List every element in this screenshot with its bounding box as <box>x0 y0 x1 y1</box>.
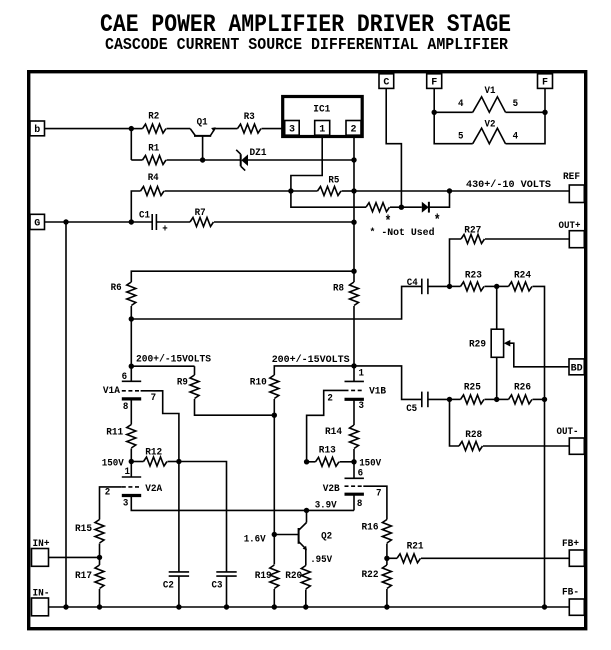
transistor Q1 <box>190 118 216 161</box>
zener diode DZ1 <box>203 148 354 171</box>
svg-text:R29: R29 <box>469 339 486 350</box>
svg-text:REF: REF <box>563 172 580 183</box>
terminal IN+ <box>32 539 50 566</box>
svg-text:IC1: IC1 <box>313 104 330 115</box>
svg-text:C3: C3 <box>212 580 223 591</box>
terminal F (right) <box>538 74 553 89</box>
svg-text:R2: R2 <box>148 112 159 123</box>
svg-text:R15: R15 <box>75 524 92 535</box>
node rail/R17 <box>97 604 102 609</box>
svg-text:Q2: Q2 <box>321 531 332 542</box>
svg-text:C2: C2 <box>163 580 174 591</box>
node rail/C2 <box>176 604 181 609</box>
wire left rail G to bottom <box>65 222 67 607</box>
resistor R25 <box>450 382 497 404</box>
svg-text:3: 3 <box>123 498 128 509</box>
label 200 volts right <box>272 354 350 366</box>
node heater left junction <box>432 110 437 115</box>
resistor R7 <box>156 208 354 227</box>
svg-text:V1: V1 <box>485 86 496 97</box>
capacitor C1 <box>139 211 168 236</box>
svg-text:430+/-10 VOLTS: 430+/-10 VOLTS <box>466 179 551 191</box>
resistor R22 <box>362 558 392 607</box>
svg-text:FB+: FB+ <box>562 539 579 550</box>
wire G to C1 <box>45 221 153 223</box>
node R10 bottom junction <box>272 413 277 418</box>
svg-text:V2: V2 <box>485 120 496 131</box>
heater V1 <box>434 86 545 112</box>
node R4/R5/pin1 junction <box>288 188 293 193</box>
transistor Q2 <box>274 510 332 565</box>
svg-text:V2B: V2B <box>323 484 340 495</box>
svg-text:R1: R1 <box>148 144 159 155</box>
svg-text:2: 2 <box>350 124 356 135</box>
resistor R23 <box>450 270 497 291</box>
resistor not used <box>366 203 401 212</box>
resistor R8 <box>333 282 359 366</box>
svg-text:5: 5 <box>458 132 464 143</box>
svg-text:R23: R23 <box>465 270 482 281</box>
node R6 bottom junction <box>129 316 134 321</box>
wire F left down <box>433 88 435 112</box>
svg-text:8: 8 <box>357 499 363 510</box>
wire 200V right to C5 <box>354 366 422 400</box>
node C5/R25/R28 junction <box>447 397 452 402</box>
label -Not Used <box>370 227 435 239</box>
resistor R21 <box>387 542 569 563</box>
svg-text:IN+: IN+ <box>33 539 50 550</box>
terminal IN- <box>32 589 50 616</box>
svg-text:R17: R17 <box>75 571 92 582</box>
node 150V left junction <box>129 459 134 464</box>
node rail/R22 <box>384 604 389 609</box>
resistor R27 <box>450 225 570 286</box>
svg-text:1: 1 <box>359 368 365 379</box>
node R16/R21/R22 junction <box>384 556 389 561</box>
wire R12 node to C3 column <box>179 462 227 572</box>
capacitor C4 <box>407 278 450 294</box>
svg-text:3: 3 <box>359 401 365 412</box>
wire V1A grid pin7 to C2 column <box>141 391 179 462</box>
svg-text:G: G <box>34 219 40 230</box>
wire V1B grid pin2 to R13 node <box>307 390 345 461</box>
svg-text:V2A: V2A <box>145 484 162 495</box>
label asterisk diode <box>434 213 441 230</box>
svg-text:R21: R21 <box>407 542 424 553</box>
resistor R24 <box>497 270 545 399</box>
label 3.9V <box>315 501 337 512</box>
node b/R1/R2 junction <box>129 126 134 131</box>
svg-text:R25: R25 <box>464 382 481 393</box>
resistor R26 <box>497 382 545 404</box>
node G/R4 junction <box>129 219 134 224</box>
svg-text:R14: R14 <box>325 427 342 438</box>
svg-text:OUT-: OUT- <box>557 427 579 438</box>
node rail/C3 <box>224 604 229 609</box>
svg-text:R27: R27 <box>464 225 481 236</box>
node R25/R26/R29 junction <box>494 397 499 402</box>
svg-text:7: 7 <box>151 393 157 404</box>
resistor R5 <box>291 176 354 196</box>
wire IN+ to R15/R17 <box>49 556 100 558</box>
node R7/pin2 column junction <box>351 220 356 225</box>
resistor R11 <box>106 399 136 462</box>
svg-text:*: * <box>434 213 441 230</box>
svg-text:R9: R9 <box>177 378 188 389</box>
svg-text:* -Not Used: * -Not Used <box>370 227 435 239</box>
op-amp IC1 <box>283 97 363 137</box>
capacitor C5 <box>406 392 449 415</box>
node R23/R24/R29 junction <box>494 284 499 289</box>
label 150V left <box>102 458 124 469</box>
triode V2B <box>323 462 382 510</box>
svg-text:C5: C5 <box>406 404 417 415</box>
resistor R2 <box>131 112 190 134</box>
node rail/R20 <box>303 604 308 609</box>
node 150V right junction <box>351 459 356 464</box>
svg-text:FB-: FB- <box>562 588 579 599</box>
resistor R13 <box>307 446 354 467</box>
svg-text:1.6V: 1.6V <box>244 534 266 545</box>
wire R6 bottom to C4 <box>131 286 421 319</box>
wire riser to FB- rail <box>544 399 546 607</box>
triode V1B <box>327 366 386 412</box>
svg-text:5: 5 <box>513 99 519 110</box>
svg-text:R7: R7 <box>195 208 206 219</box>
svg-text:8: 8 <box>123 402 128 413</box>
svg-text:.95V: .95V <box>310 555 332 566</box>
node rail/FB- riser <box>542 604 547 609</box>
svg-text:R16: R16 <box>362 522 379 533</box>
terminal G <box>30 214 45 229</box>
svg-text:C1: C1 <box>139 211 150 222</box>
svg-text:C4: C4 <box>407 278 418 289</box>
svg-text:R13: R13 <box>319 446 336 457</box>
terminal F (left) <box>427 74 442 89</box>
wire F right down <box>544 88 546 112</box>
node C4/R23/R27 junction <box>447 284 452 289</box>
label 1.6V <box>244 534 266 545</box>
triode V2A <box>105 462 162 510</box>
wire R10 node down to 1.6V node <box>273 415 275 564</box>
capacitor C3 <box>212 572 237 607</box>
svg-text:R24: R24 <box>514 270 531 281</box>
wire b to node <box>45 128 132 130</box>
svg-text:OUT+: OUT+ <box>559 221 581 232</box>
terminal REF <box>563 172 584 203</box>
label .95V <box>310 555 332 566</box>
node R6 top/pin2 column junction <box>351 269 356 274</box>
svg-text:200+/-15VOLTS: 200+/-15VOLTS <box>272 354 350 366</box>
node Q2 collector junction <box>304 508 309 513</box>
node R12/C2/C3 junction <box>176 459 181 464</box>
capacitor C2 <box>163 462 189 608</box>
resistor R16 <box>362 520 392 559</box>
resistor R14 <box>325 399 359 462</box>
node 1.6V junction <box>272 532 277 537</box>
label 150V right <box>359 458 381 469</box>
wire bottom rail IN- <box>49 606 570 608</box>
svg-text:IN-: IN- <box>33 589 50 600</box>
label 430+/-10 VOLTS <box>466 179 551 191</box>
svg-text:F: F <box>542 78 548 89</box>
svg-text:R26: R26 <box>514 382 531 393</box>
svg-text:+: + <box>162 225 168 236</box>
diode not used <box>401 191 449 213</box>
svg-text:R4: R4 <box>148 173 159 184</box>
svg-text:Q1: Q1 <box>197 118 208 129</box>
wire REF line 430 volts <box>354 190 569 192</box>
terminal OUT- <box>557 427 585 454</box>
node rail/R19 <box>272 604 277 609</box>
resistor R9 <box>177 366 274 415</box>
terminal FB+ <box>562 539 584 566</box>
svg-text:6: 6 <box>358 468 364 479</box>
terminal OUT+ <box>559 221 585 248</box>
potentiometer R29 <box>469 286 569 399</box>
svg-text:V1A: V1A <box>103 386 120 397</box>
svg-text:R5: R5 <box>328 176 339 187</box>
triode V1A <box>103 366 156 413</box>
svg-text:R28: R28 <box>465 430 482 441</box>
wire V2A cathode pin3 to V2B cathode (3.9V line) <box>131 496 354 511</box>
resistor R1 <box>131 144 203 165</box>
svg-text:F: F <box>431 78 437 89</box>
node right 200V junction <box>351 363 356 368</box>
svg-text:R20: R20 <box>285 571 302 582</box>
svg-text:3.9V: 3.9V <box>315 501 337 512</box>
wire V2A grid pin2 to R15 <box>100 487 122 520</box>
resistor R12 <box>131 447 179 466</box>
wire node down to R1 row <box>130 129 132 160</box>
node R5/pin2 junction <box>351 188 356 193</box>
resistor R3 <box>215 112 283 133</box>
heater V2 <box>434 112 545 143</box>
node REF/diode riser junction <box>447 188 452 193</box>
subtitle <box>105 36 509 55</box>
svg-text:R11: R11 <box>106 428 123 439</box>
terminal C <box>379 74 394 89</box>
svg-text:1: 1 <box>125 467 131 478</box>
resistor R15 <box>75 520 104 558</box>
resistor R10 <box>250 366 354 415</box>
svg-text:BD: BD <box>571 363 583 374</box>
resistor R19 <box>255 565 279 607</box>
svg-text:R10: R10 <box>250 378 267 389</box>
node DZ1 wire / IC1 pin2 column <box>351 157 356 162</box>
svg-text:R8: R8 <box>333 284 344 295</box>
resistor R17 <box>75 557 104 607</box>
svg-text:R12: R12 <box>145 447 162 458</box>
wire terminal C to not-used node <box>386 88 401 207</box>
wire IC1 pin2 column <box>353 135 355 282</box>
svg-text:1: 1 <box>319 124 325 135</box>
svg-text:2: 2 <box>105 488 111 499</box>
label 200 volts left <box>136 354 211 366</box>
svg-text:7: 7 <box>376 488 382 499</box>
resistor R28 <box>450 399 570 450</box>
wire IC1 pin1 to R4/R5 node <box>291 135 322 191</box>
svg-text:6: 6 <box>122 372 128 383</box>
resistor R6 <box>111 271 354 366</box>
resistor R4 <box>131 173 291 222</box>
terminal b <box>30 121 45 136</box>
terminal BD <box>569 359 584 375</box>
wire left 200V to R9 <box>131 365 194 367</box>
svg-text:200+/-15VOLTS: 200+/-15VOLTS <box>136 354 211 366</box>
node not-used resistor/diode/C junction <box>399 205 404 210</box>
svg-text:R6: R6 <box>111 283 122 294</box>
svg-text:4: 4 <box>513 132 519 143</box>
node R26/R24 riser junction <box>542 397 547 402</box>
wire V2B cathode pin8 down <box>353 494 355 510</box>
terminal FB- <box>562 588 584 616</box>
wire V2B grid pin7 to R16 <box>363 486 387 519</box>
svg-text:CAE POWER AMPLIFIER DRIVER STA: CAE POWER AMPLIFIER DRIVER STAGE <box>100 10 511 39</box>
svg-text:R22: R22 <box>362 570 379 581</box>
resistor R20 <box>285 566 310 608</box>
svg-text:3: 3 <box>289 124 295 135</box>
svg-text:2: 2 <box>327 393 333 404</box>
svg-text:4: 4 <box>458 99 464 110</box>
svg-text:150V: 150V <box>102 458 124 469</box>
svg-text:R3: R3 <box>244 112 255 123</box>
node Q1 base junction <box>200 157 205 162</box>
label asterisk resistor <box>385 214 392 231</box>
svg-text:C: C <box>383 78 389 89</box>
node rail/left rail <box>63 604 68 609</box>
svg-text:R19: R19 <box>255 571 272 582</box>
title <box>100 10 511 39</box>
svg-text:b: b <box>34 124 40 136</box>
node R13 left junction <box>304 459 309 464</box>
border frame <box>29 72 586 629</box>
svg-text:CASCODE CURRENT SOURCE DIFFERE: CASCODE CURRENT SOURCE DIFFERENTIAL AMPL… <box>105 36 509 55</box>
node heater right junction <box>542 110 547 115</box>
node G/left rail junction <box>63 219 68 224</box>
svg-text:DZ1: DZ1 <box>250 148 267 159</box>
node IN+ junction <box>97 555 102 560</box>
svg-text:V1B: V1B <box>369 387 386 398</box>
wire R5 node down to not-used row <box>291 191 366 207</box>
node left 200V junction <box>129 364 134 369</box>
